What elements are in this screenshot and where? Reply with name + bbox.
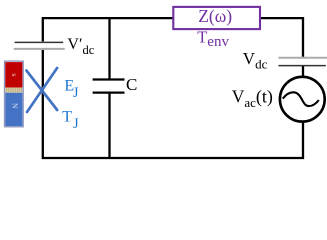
capacitor Vdc bottom plate bbox=[278, 65, 325, 67]
AC source sine wave bbox=[283, 92, 319, 106]
impedance Z box bbox=[173, 7, 260, 29]
svg-text:C: C bbox=[126, 75, 137, 94]
wire: top-left horizontal + left vertical down to V'dc capacitor bbox=[43, 18, 174, 41]
svg-text:EJ: EJ bbox=[64, 78, 78, 101]
svg-text:Z(ω): Z(ω) bbox=[198, 6, 232, 26]
Josephson junction X bbox=[26, 68, 57, 112]
wire: top-right from Z box, corner, down to Vdc capacitor bbox=[260, 18, 303, 57]
capacitor C top plate bbox=[93, 78, 125, 80]
magnet outline bbox=[5, 61, 24, 127]
capacitor C bottom plate bbox=[93, 91, 125, 93]
wire: right vertical between Vdc capacitor and AC source bbox=[302, 66, 304, 77]
magnet band texture bbox=[7, 88, 22, 92]
svg-text:S: S bbox=[10, 73, 16, 76]
capacitor V'dc top plate bbox=[15, 41, 64, 43]
AC source Vac(t) circle bbox=[280, 77, 325, 122]
magnet south pole (red) bbox=[5, 62, 22, 88]
svg-text:V′dc: V′dc bbox=[67, 36, 94, 57]
magnet bar bbox=[5, 61, 24, 127]
wire: left vertical below V'dc + bottom wire + right vertical up to AC source bbox=[43, 50, 303, 158]
capacitor Vdc top plate (gray) bbox=[278, 57, 327, 59]
wire: middle vertical from top wire to capacitor C bbox=[108, 18, 110, 79]
svg-text:Tenv: Tenv bbox=[197, 28, 229, 51]
capacitor V'dc bottom plate (gray) bbox=[14, 48, 65, 50]
svg-text:N: N bbox=[11, 103, 20, 109]
magnet middle band bbox=[5, 88, 22, 93]
svg-text:Vac(t): Vac(t) bbox=[232, 87, 273, 110]
wire: middle vertical from capacitor C to bottom wire bbox=[108, 93, 110, 158]
magnet north pole (blue) bbox=[5, 93, 22, 126]
svg-text:Vdc: Vdc bbox=[243, 49, 268, 71]
svg-text:TJ: TJ bbox=[62, 109, 79, 132]
